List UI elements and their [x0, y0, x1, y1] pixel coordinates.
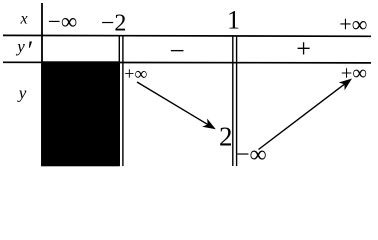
double bar at x = 1	[233, 36, 237, 166]
svg-text:+∞: +∞	[339, 12, 367, 37]
svg-text:′: ′	[28, 36, 34, 65]
row label x	[20, 10, 28, 27]
svg-text:+∞: +∞	[124, 63, 147, 83]
svg-text:y: y	[17, 83, 27, 102]
limit +infinity as x goes to +infinity (y row)	[341, 63, 367, 85]
label -2 (x row)	[101, 10, 127, 36]
svg-text:−∞: −∞	[48, 9, 77, 34]
horizontal rule under x row	[3, 34, 371, 37]
label 1 (x row)	[227, 6, 240, 35]
label -infinity (x row)	[48, 9, 77, 34]
row label y	[17, 83, 27, 102]
black filled region (function undefined for x &lt; -2)	[41, 61, 119, 166]
svg-text:−2: −2	[101, 10, 127, 36]
value 2 (limit at 1-)	[219, 122, 233, 152]
svg-text:+: +	[296, 34, 311, 63]
svg-text:+∞: +∞	[341, 63, 367, 85]
row label y'	[15, 36, 33, 65]
svg-text:x: x	[20, 10, 28, 27]
svg-text:−: −	[170, 36, 185, 66]
limit -infinity at 1+ (y row)	[236, 142, 267, 168]
horizontal rule under y' row	[3, 61, 371, 64]
svg-text:1: 1	[227, 6, 240, 35]
double bar at x = -2	[119, 36, 123, 166]
decreasing arrow from +infinity to 2	[137, 82, 216, 129]
vertical separator after label column	[41, 3, 43, 166]
svg-text:2: 2	[219, 122, 233, 152]
increasing arrow from -infinity to +infinity	[259, 79, 353, 150]
minus sign (y' row)	[170, 36, 185, 66]
plus sign (y' row)	[296, 34, 311, 63]
svg-text:y: y	[15, 37, 25, 56]
label +infinity (x row)	[339, 12, 367, 37]
limit +infinity at -2 (y row)	[124, 63, 147, 83]
svg-text:−∞: −∞	[236, 142, 267, 168]
